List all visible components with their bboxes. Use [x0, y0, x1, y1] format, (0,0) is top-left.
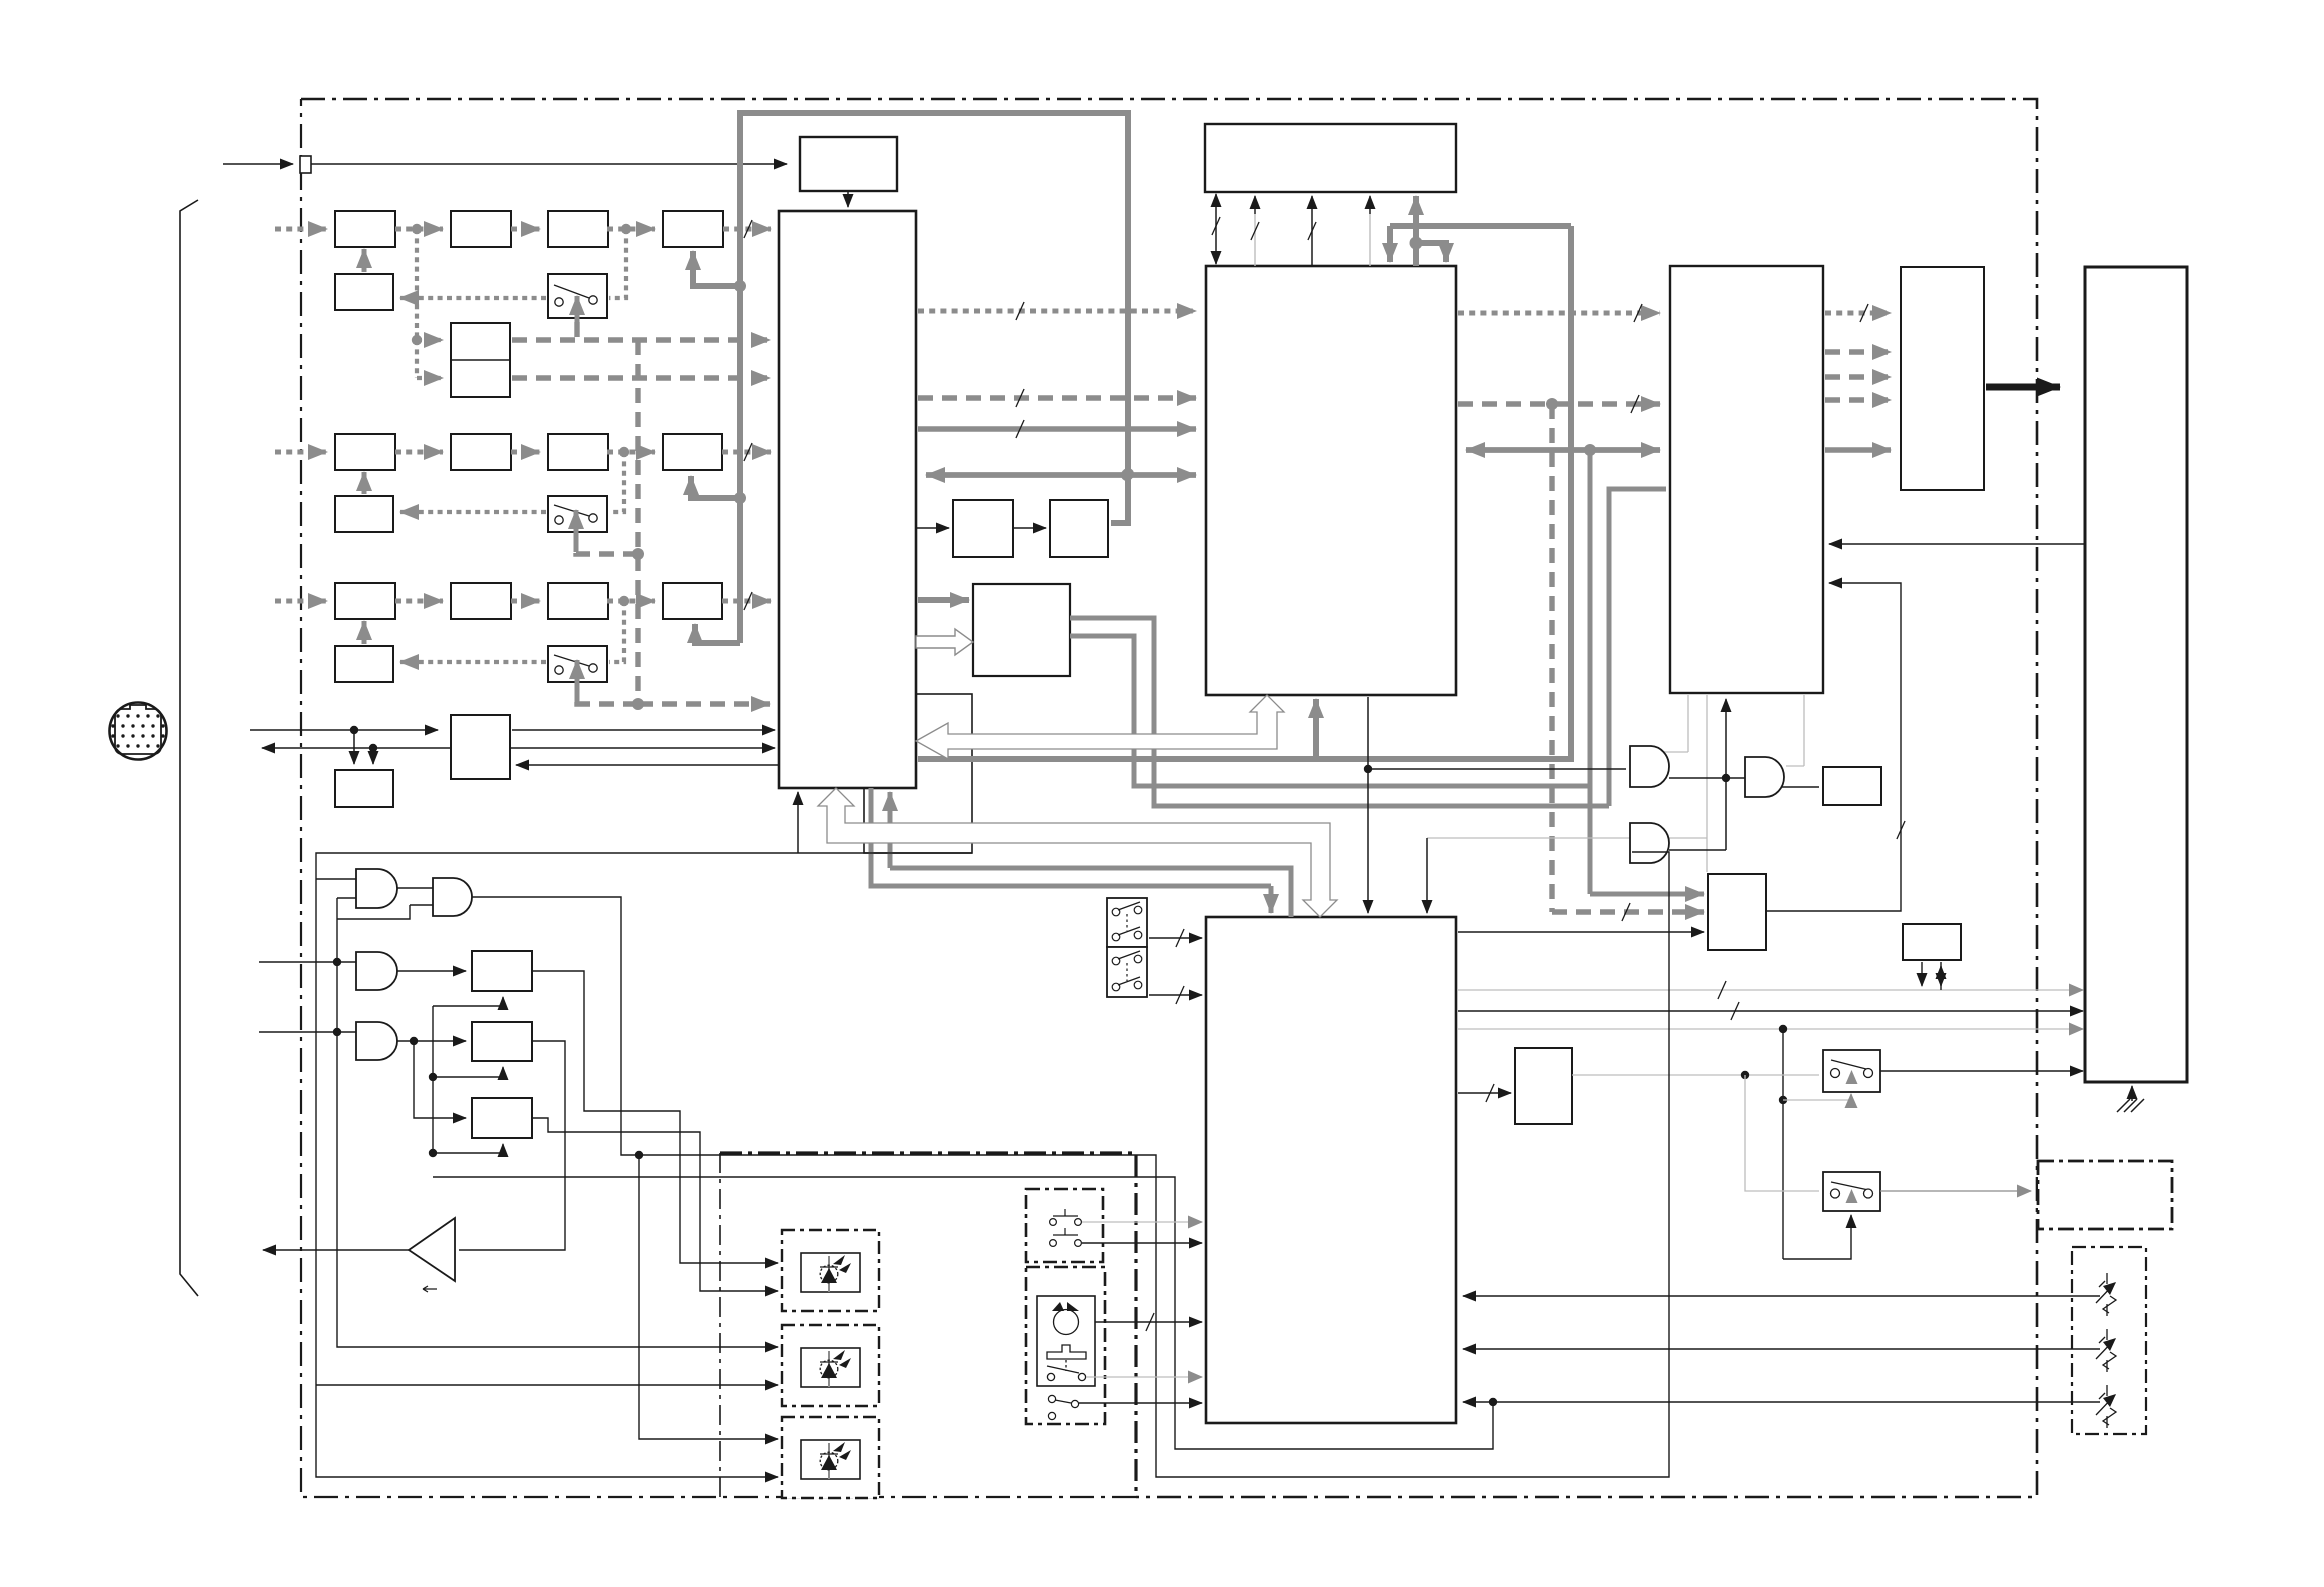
ext input 1 to GC	[259, 961, 356, 963]
P1 to buffer	[459, 1041, 565, 1250]
encoder C	[1670, 266, 1823, 693]
H to key decoder L	[1458, 1092, 1511, 1094]
sync separator box A2	[800, 137, 897, 191]
small arrow glyph	[423, 1286, 437, 1292]
cable bracket	[180, 200, 198, 1296]
A to F1	[916, 527, 949, 529]
row 1 junction 1	[412, 224, 422, 234]
dashed bus A to B	[918, 395, 1196, 400]
C to D buses	[1825, 311, 1891, 316]
buffer output	[263, 1249, 409, 1251]
row 1 switch box	[548, 274, 607, 318]
thick gray clock trunk	[740, 113, 1128, 643]
GB output	[472, 896, 601, 898]
row 3 junction drop	[609, 601, 624, 662]
H to E line 2	[1458, 1010, 2083, 1012]
return line into box N	[516, 764, 779, 766]
thick black video out D to E	[1986, 384, 2060, 391]
system control micom H	[1206, 917, 1456, 1423]
EEPROM I bottom arrows	[1921, 962, 1923, 986]
row 1 sub to box arrow	[362, 249, 367, 272]
B bottom black wire to H and AND1	[1367, 697, 1369, 913]
motor status to H	[1095, 1321, 1202, 1323]
branch to S4	[1745, 1075, 1819, 1191]
deflection block E	[2085, 267, 2187, 1082]
P2 to LED1b	[532, 1118, 778, 1291]
service switch S3	[1823, 1050, 1880, 1092]
junction clock/bidir bus	[1122, 468, 1134, 480]
H bottom nested wires	[433, 1177, 1493, 1449]
cassette switch to H	[1086, 1376, 1202, 1378]
row 2 box 2	[451, 434, 511, 470]
photo sensor 1	[2096, 1273, 2116, 1316]
row 3 box 1	[335, 583, 395, 619]
AND gate GC	[356, 952, 397, 990]
end sensor to H	[1079, 1402, 1202, 1404]
row 3 sub box	[335, 646, 393, 682]
AND gate U3	[1630, 823, 1669, 863]
sub box G behind main IC	[864, 694, 972, 853]
row 1 switch to sub dotted	[400, 296, 546, 300]
LED indicator 2	[782, 1325, 879, 1406]
GA input 2	[337, 897, 356, 899]
row 1 box 1	[335, 211, 395, 247]
row1 switch actuate arrow	[575, 296, 580, 336]
row 3 box 4	[663, 583, 722, 619]
row 2 dotted input	[275, 450, 327, 455]
AND gate U2	[1745, 757, 1784, 797]
LED indicator 1	[782, 1230, 879, 1311]
row 1 sub box	[335, 274, 393, 310]
connector pin	[300, 156, 311, 173]
H to E line 3	[1458, 1028, 2083, 1030]
driver D	[1901, 267, 1984, 490]
wire to sync separator	[311, 163, 787, 165]
C bottom gray feeds	[1687, 695, 1689, 752]
dashed arrow into H2	[1552, 909, 1704, 914]
gray arrow into H2	[1590, 892, 1704, 897]
mode switch S2	[1107, 947, 1147, 997]
row 1 box 4	[663, 211, 723, 247]
row 2 sub to box arrow	[362, 472, 367, 494]
AND gate U1	[1630, 746, 1669, 787]
P0 to LED1a	[532, 971, 778, 1263]
flip-flop P2	[472, 1098, 532, 1138]
inner bottom dash-dot frame	[720, 1153, 1136, 1497]
reset box H2	[1708, 874, 1766, 950]
U1 output to junction	[1669, 777, 1726, 779]
main processor B	[1206, 266, 1456, 695]
option connector box K (dash-dot)	[2038, 1161, 2172, 1229]
motor/loading box (dash-dot)	[1026, 1267, 1105, 1424]
dashed vertical trunk x638	[635, 340, 640, 704]
key decoder box L	[1515, 1048, 1572, 1124]
U2 output to latch J	[1782, 786, 1819, 788]
GA out to GB	[397, 887, 433, 889]
GC out to P0	[397, 970, 466, 972]
push button line 1	[1082, 1221, 1202, 1223]
row 1 dotted input	[275, 227, 327, 232]
wire A2 to main IC	[847, 191, 849, 207]
E feedback to C	[1829, 543, 2085, 545]
row 2 switch to sub	[400, 510, 546, 514]
top input wire	[223, 163, 293, 165]
flip-flop P0	[472, 951, 532, 991]
S1 to H	[1149, 937, 1202, 939]
A to F thick arrow	[918, 597, 969, 603]
row 3 box 3	[548, 583, 608, 619]
H2 status to C	[1766, 583, 1901, 911]
row1 switch bottom dashed	[574, 322, 579, 340]
gray bus H to A (return)	[890, 868, 1291, 917]
frame wire up into A	[797, 792, 799, 853]
gray bus A to H	[871, 788, 1271, 886]
row 3 sub to box arrow	[362, 621, 367, 644]
U3 output to junction	[1669, 849, 1726, 851]
drop to box M	[353, 730, 355, 764]
S4 to option connector K	[1880, 1190, 2031, 1192]
row 2 box 1	[335, 434, 395, 470]
dual box divider	[451, 359, 510, 361]
AND gate GB	[433, 878, 472, 916]
push button line 2	[1082, 1242, 1202, 1244]
dashed branch to row3 switch	[577, 696, 638, 704]
box N	[451, 715, 510, 779]
cluster frame wire	[316, 853, 972, 1477]
photo sensor 3	[2096, 1385, 2116, 1428]
outer chassis border (dash-dot)	[301, 99, 2037, 1497]
dashed bus from dual box to IC A	[512, 337, 770, 342]
row 2 box 3	[548, 434, 608, 470]
filter box F2	[1050, 500, 1108, 557]
ground symbol under E	[2131, 1086, 2133, 1101]
row 3 switch to sub	[400, 660, 546, 664]
buffer triangle	[409, 1218, 455, 1281]
photo sensor 2	[2096, 1329, 2116, 1372]
ext input 2 to GD	[259, 1031, 356, 1033]
memory bus verticals	[1215, 194, 1217, 203]
AND gate GA	[356, 869, 397, 908]
branch arrow into B bottom	[1313, 699, 1319, 759]
GB input 2 wire	[337, 905, 410, 919]
row 3 box 2	[451, 583, 511, 619]
F output bus 2	[1070, 636, 1590, 786]
hollow bus B to A	[916, 695, 1284, 759]
DIN connector	[110, 703, 167, 760]
latch box J	[1823, 767, 1881, 805]
F1 to F2	[1013, 527, 1046, 529]
row 1 junction drop to switch	[609, 229, 626, 298]
solid bus B to C (bidirectional)	[1466, 447, 1660, 452]
solid bus A to B	[918, 426, 1196, 431]
row 3 switch box	[548, 646, 607, 682]
S3 to E	[1880, 1070, 2083, 1072]
dotted bus B to C	[1458, 311, 1660, 316]
L to S3	[1572, 1074, 1819, 1076]
row 1 junction 2	[621, 224, 631, 234]
row 2 switch box	[548, 496, 607, 532]
bus A right edge to vertical riser	[918, 226, 1571, 759]
push button box (dash-dot)	[1026, 1189, 1103, 1262]
wire to AND1 input	[1368, 768, 1626, 770]
row 1 box 2	[451, 211, 511, 247]
dashed bus B to C	[1458, 401, 1660, 406]
vertical from bus junction to switches	[1782, 1029, 1784, 1259]
wire down into H top	[1426, 838, 1428, 913]
H to H2	[1458, 931, 1704, 933]
mode switch S1	[1107, 898, 1147, 947]
F output bus 1	[1070, 618, 1609, 806]
hollow arrow A to F	[916, 629, 973, 655]
EEPROM box I	[1903, 924, 1961, 960]
riser to H2	[1588, 786, 1593, 894]
gray bus T-B cluster	[1413, 196, 1419, 266]
sensor lines to H	[1463, 1295, 2100, 1297]
row 3 dotted input	[275, 599, 327, 604]
dashed bus into IC A	[638, 701, 770, 706]
to LED3a	[639, 1155, 778, 1439]
row 1 box 3	[548, 211, 608, 247]
sensor box (dash-dot)	[2072, 1247, 2146, 1434]
hollow bus A-H	[818, 788, 1337, 917]
row 2 junction drop	[609, 452, 624, 512]
bidirectional bus A-B	[926, 472, 1196, 477]
to P2 input	[414, 1041, 466, 1118]
dashed drop from B-C bus	[1549, 404, 1554, 912]
riser to solid B-C bus	[1588, 450, 1593, 786]
S2 to H	[1149, 994, 1202, 996]
AND gate GD	[356, 1022, 397, 1060]
drop wire to LED2	[337, 898, 778, 1347]
box M	[335, 770, 393, 807]
loading mech inner box	[1037, 1296, 1095, 1386]
GD out to P1	[397, 1040, 466, 1042]
riser into C	[1609, 489, 1666, 806]
AND junction vertical into C bottom	[1725, 699, 1727, 850]
DSP box F	[973, 584, 1070, 676]
flip-flop P1	[472, 1022, 532, 1061]
service switch S4	[1823, 1172, 1880, 1211]
LED indicator 3	[782, 1417, 879, 1498]
frame to LED2b	[316, 1384, 778, 1386]
memory bar T	[1205, 124, 1456, 192]
row 2 box 4	[663, 434, 722, 470]
junction to U2 input	[1726, 777, 1745, 779]
S-video input lines	[250, 729, 438, 731]
dashed branch to row2 switch	[576, 545, 638, 554]
C bottom to U2 input	[1803, 695, 1805, 766]
filter box F1	[953, 500, 1013, 557]
H to E line 1	[1458, 989, 2083, 991]
row 1 drop to character box	[415, 229, 419, 340]
video decoder IC A	[779, 211, 916, 788]
P box clock feeds	[433, 997, 503, 1006]
row 2 sub box	[335, 496, 393, 532]
GA input 1	[316, 878, 356, 880]
dual comparator box	[451, 323, 510, 397]
dotted bus A to B	[918, 309, 1196, 314]
